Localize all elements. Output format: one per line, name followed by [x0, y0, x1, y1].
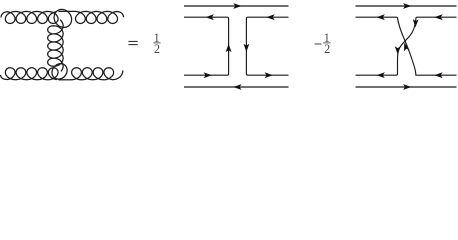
gluon g2 bottom horizontal left half: [1, 68, 59, 80]
arrow bottom-right inner (right): [265, 72, 273, 78]
equals sign: [128, 41, 137, 45]
arrow left vertical (up): [226, 44, 232, 52]
arrow on ascending diagonal (up): [404, 43, 410, 52]
fraction one-half coefficient: [154, 31, 160, 56]
gluon g2 bottom guide segment across vertex: [58, 79, 71, 81]
color line: bottom outer right diagram (flow right): [356, 86, 457, 88]
svg-text:2: 2: [154, 42, 160, 56]
fraction bar: [153, 42, 160, 45]
arrow top outer right diagram (right): [403, 3, 411, 9]
arrow descending curve near-vertical part (down): [395, 46, 401, 54]
vertex loop bottom (g2-g3 junction): [49, 61, 70, 83]
arrow top-right inner (left): [266, 14, 274, 20]
arrow right vertical (down): [244, 44, 250, 52]
arrow top-left inner (left): [206, 14, 214, 20]
arrow top-left inner (left): [377, 14, 385, 20]
minus sign: [315, 43, 322, 46]
arrow bottom-right inner (left): [434, 72, 442, 78]
color line: top outer right diagram (flow right): [356, 5, 457, 7]
arrow top outer (right): [233, 3, 241, 9]
arrow bottom outer (left): [233, 84, 241, 90]
color line: top-left inner + ascending diagonal to bottom-right corner: [356, 17, 457, 75]
color line: right U (top-right in, down, bottom-right out): [246, 17, 288, 75]
arrow top-right inner (left): [434, 14, 442, 20]
gluon g1 top horizontal left half: [1, 11, 58, 23]
vertex loop top (g1-g3 junction): [50, 6, 75, 31]
gluon g2 bottom horizontal right half: [71, 68, 123, 80]
arrow descending curve below top corner (down): [413, 19, 419, 27]
arrow bottom-left inner (left): [377, 72, 385, 78]
svg-text:2: 2: [324, 42, 330, 56]
arrow bottom-left inner (right): [204, 72, 212, 78]
color line: bottom outer (flow left): [184, 86, 289, 88]
gluon g3 vertical exchange coil: [48, 20, 64, 72]
gluon g1 top guide segment across vertex: [58, 10, 75, 12]
fraction one-half coefficient (second): [324, 31, 330, 56]
color line: top-right inner + descending crossing curve to bottom-left: [356, 17, 457, 75]
color line: left U (bottom-left in, up, top-left out): [184, 17, 229, 75]
gluon g1 top horizontal right half: [75, 11, 124, 23]
arrow bottom outer right diagram (right): [403, 84, 411, 90]
fraction bar (second): [323, 42, 330, 45]
color line: top outer (flow right): [184, 5, 289, 7]
